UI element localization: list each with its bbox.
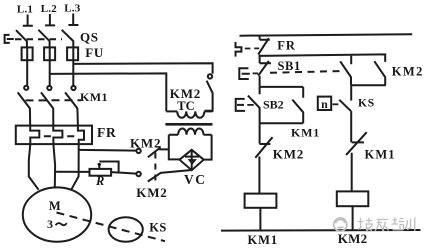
watermark logo (334, 218, 347, 231)
wire FR to motor phase 2 (53, 144, 55, 188)
control bottom rail (221, 229, 421, 232)
contactor KM2 interlock (NC) (255, 137, 272, 193)
node L1 (17, 4, 33, 26)
speed relay contact KS (NO) (339, 100, 351, 112)
transformer TC secondary winding (169, 129, 212, 135)
coil KM2 (337, 191, 369, 206)
contactor KM2 aux NO left (self hold branch) (340, 56, 351, 86)
contactor KM1 aux NO (self hold) (292, 87, 303, 123)
svg-text:KM2: KM2 (338, 231, 368, 246)
svg-text:FU: FU (85, 45, 104, 60)
relay FR contact (NC) control (236, 36, 270, 57)
wire FU3 to transformer branch (73, 63, 212, 73)
svg-text:KM2: KM2 (392, 65, 424, 79)
contactor KM2 aux NO right (374, 61, 385, 85)
fuse FU3 (67, 47, 78, 85)
watermark text (358, 218, 415, 232)
wire coil KM1 to rail (259, 208, 261, 231)
wire KM2 aux bottom link (351, 84, 386, 86)
wire parallel top link (260, 86, 304, 88)
wire KM2 aux to KS (350, 85, 352, 100)
transformer TC core (165, 123, 212, 126)
svg-text:L.2: L.2 (41, 3, 57, 15)
wire secondary left to bridge (169, 135, 180, 160)
svg-text:TC: TC (177, 99, 194, 113)
contactor KM2 brake contact upper (136, 148, 168, 157)
svg-text:KM1: KM1 (365, 148, 396, 162)
svg-text:n: n (321, 97, 328, 111)
thermal relay FR box (16, 126, 92, 145)
svg-text:SB1: SB1 (278, 59, 301, 73)
contactor KM2 pole at transformer (204, 74, 212, 111)
thermal relay FR element 3 (78, 126, 84, 145)
wire branch line to KM2 parallel (260, 54, 386, 62)
switch QS pole 3 blade (62, 30, 74, 48)
wire FR to motor phase 1 (29, 144, 39, 190)
wire braking tap upper (phase3 to KM2 brake contact) (79, 149, 137, 152)
button SB1 (NC) (239, 61, 271, 79)
fuse FU1 (22, 47, 33, 85)
svg-text:KM2: KM2 (273, 146, 304, 161)
svg-text:QS: QS (80, 29, 99, 44)
node L2 (41, 3, 57, 25)
control top rail (240, 34, 413, 36)
wire phase2 tap to transformer primary (50, 73, 167, 111)
svg-text:M: M (49, 199, 61, 213)
fuse FU2 (44, 47, 55, 85)
shaft dashed line (57, 213, 166, 242)
svg-text:R: R (95, 174, 104, 188)
svg-text:FR: FR (277, 39, 296, 53)
transformer TC primary winding (166, 111, 212, 117)
svg-text:KS: KS (358, 97, 375, 109)
thermal relay FR element 2 (53, 126, 62, 145)
coil KM1 (245, 194, 277, 208)
switch QS linkage dashed (15, 38, 62, 40)
wire node to KM2 interlock (259, 123, 261, 143)
svg-text:FR: FR (97, 125, 117, 140)
svg-text:KS: KS (149, 221, 166, 235)
speed relay KS body (109, 217, 143, 241)
svg-text:KM2: KM2 (130, 135, 161, 150)
wire SB1 down to node (259, 76, 261, 87)
contactor KM1 interlock (NC) (346, 111, 367, 191)
wire parallel bottom link (260, 122, 304, 124)
resistor R (rheostat) (90, 162, 119, 176)
thermal relay FR element 1 (30, 126, 39, 145)
svg-text:3: 3 (47, 217, 53, 231)
wire coil KM2 to rail (352, 206, 354, 230)
wire secondary right to bridge (204, 135, 212, 160)
speed relay n box (318, 97, 339, 111)
svg-text:VC: VC (184, 172, 207, 187)
wire FR to SB1 (259, 55, 261, 64)
rectifier VC bridge (180, 150, 204, 170)
contactor KM1 main pole 2 (41, 86, 53, 126)
wire braking tap lower (phase2 to rheostat) (55, 171, 89, 173)
svg-text:KM2: KM2 (136, 185, 167, 200)
switch QS operating handle (5, 35, 14, 43)
button SB2 (NO) (236, 87, 260, 123)
wire FR to motor phase 3 (71, 144, 79, 190)
contactor KM1 main pole 3 (65, 86, 78, 126)
svg-text:SB2: SB2 (263, 98, 284, 112)
svg-text:KM1: KM1 (248, 233, 278, 247)
wire R to KM2 brake contact lower (111, 172, 136, 174)
contactor KM2 brake linkage dashed (154, 153, 156, 181)
svg-text:L.1: L.1 (17, 4, 33, 16)
switch QS pole 2 blade (38, 30, 49, 48)
thermal relay FR linkage dashes (44, 135, 74, 137)
svg-text:KM1: KM1 (80, 90, 108, 104)
linkage SB1 to KM2 dashed (270, 71, 342, 73)
contactor KM1 main linkage dashed (26, 99, 82, 101)
svg-text:KM1: KM1 (291, 125, 320, 139)
contactor KM2 brake contact lower (136, 170, 191, 182)
svg-text:L.3: L.3 (64, 3, 80, 15)
contactor KM1 main pole 1 (18, 86, 31, 126)
node L3 (64, 3, 80, 26)
switch QS pole 1 blade (16, 30, 27, 47)
motor M (23, 187, 91, 241)
